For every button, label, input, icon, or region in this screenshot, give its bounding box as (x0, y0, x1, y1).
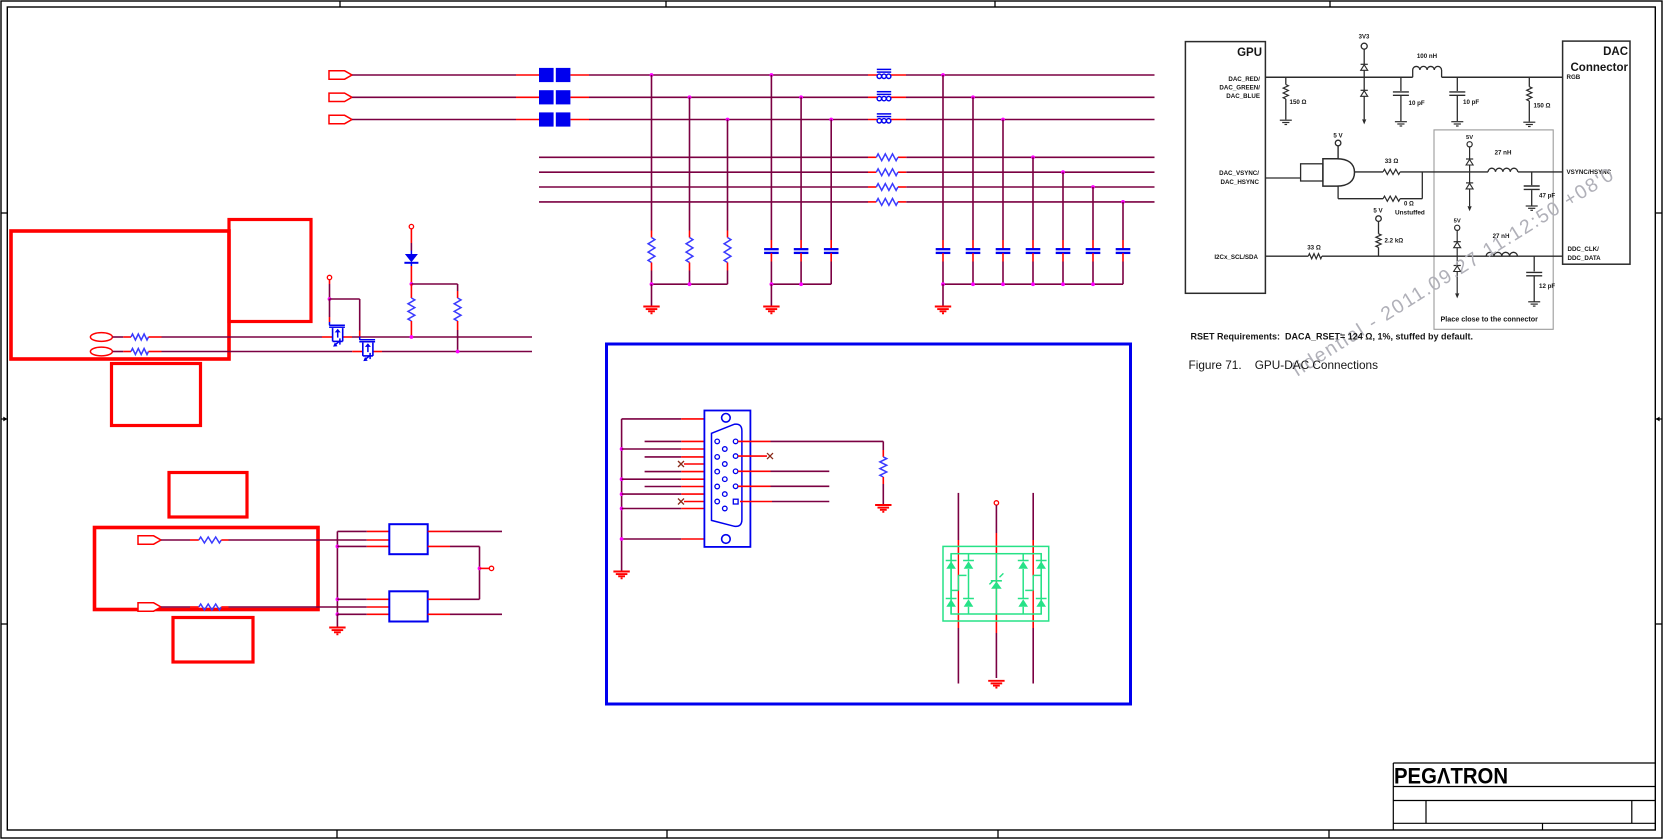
pin 4 circle (723, 462, 728, 467)
wire vertical drop to C26 (1092, 187, 1094, 249)
svg-text:Connector: Connector (1571, 62, 1629, 74)
frame center marker arrow left (1, 417, 7, 422)
wire row D to U2 (221, 606, 389, 608)
resistor R23 termination to ground (724, 238, 731, 263)
capacitor C21 (936, 249, 951, 253)
junction R33/wireA (410, 335, 414, 339)
title block cell vertical 2 (1631, 801, 1633, 824)
junction diode node (410, 282, 414, 286)
wire U1 pin out bottom to link (428, 546, 480, 599)
figure: GPU box (1185, 42, 1265, 294)
pin 1 circle (715, 439, 720, 444)
title block top line (1393, 762, 1655, 764)
figure: DAC Connector box (1563, 41, 1630, 264)
junction node right cap 6 (1091, 185, 1095, 189)
highlight box (red) area 3 (112, 364, 201, 426)
svg-text:33 Ω: 33 Ω (1385, 158, 1399, 165)
wire vertical drop to C27 (1122, 202, 1124, 249)
resistor R41 (series) (199, 537, 222, 543)
svg-text:DAC: DAC (1603, 46, 1628, 58)
highlight box (red) area 2 (229, 220, 311, 322)
junction node right cap 4 (1031, 155, 1035, 159)
svg-text:DAC_RED/: DAC_RED/ (1228, 76, 1260, 83)
svg-text:Figure 71. GPU-DAC Connecti: Figure 71. GPU-DAC Connections (1189, 358, 1379, 372)
dual pack resistor RN2 (blue squares) (539, 90, 570, 104)
ESD diode D5b (bottom) (1036, 569, 1047, 614)
svg-text:5V: 5V (1466, 135, 1473, 141)
figure: inductor 27nH ddc (1486, 252, 1517, 256)
svg-text:I2Cx_SCL/SDA: I2Cx_SCL/SDA (1214, 254, 1258, 261)
terminal circle out (489, 566, 493, 570)
capacitor C24 (1026, 249, 1041, 253)
figure: diode string vsync (1466, 135, 1473, 211)
frame center marker arrow right (1656, 417, 1662, 422)
junction bus/mid pin 4 (620, 492, 624, 496)
frame zone tick left upper (1, 212, 7, 214)
figure: wire gate output (1355, 171, 1440, 173)
wire vertical drop to C11 (770, 75, 772, 249)
junction node red/C (770, 73, 774, 77)
wire bus to VGA mid pin 1 (622, 448, 723, 450)
title block cell vertical 1 (1425, 801, 1427, 824)
figure: resistor 2.2k (1376, 221, 1381, 256)
power terminal circle (FET gates) (327, 275, 331, 279)
svg-text:DDC_DATA: DDC_DATA (1568, 255, 1602, 262)
title block left vertical (1392, 763, 1394, 830)
ferrite bead FB3 (877, 114, 891, 123)
wire to VGA left pin 5 (645, 471, 715, 473)
capacitor C12 (794, 249, 809, 253)
wire vertical drop to R23 (727, 120, 729, 238)
wire cap group1 bus (771, 283, 831, 285)
wire bus to U1 pin1 (337, 530, 389, 532)
frame zone tick bottom 2 (666, 830, 668, 838)
wire gate node to Q2 (330, 299, 360, 337)
title block line under logo (1393, 786, 1655, 788)
svg-text:DAC_GREEN/: DAC_GREEN/ (1219, 85, 1260, 92)
svg-text:2.2 kΩ: 2.2 kΩ (1385, 238, 1404, 245)
wire C23 bottom (1002, 253, 1004, 284)
ESD steering jog right pair (1025, 575, 1041, 590)
junction bus/mid pin 1 (620, 447, 624, 451)
wire ESD line 3 (1032, 493, 1034, 684)
pin 10 circle (723, 506, 728, 511)
wire sync row 4 (539, 201, 1155, 203)
wire row B (149, 351, 533, 353)
pin 2 circle (723, 447, 728, 452)
figure: resistor 150ohm left (1283, 77, 1288, 119)
figure: ground left (1280, 120, 1292, 124)
pin 5 circle (715, 469, 720, 474)
svg-text:12 pF: 12 pF (1539, 283, 1555, 290)
resistor R32 (series) (131, 349, 149, 355)
highlight box (blue) VGA area (607, 344, 1131, 704)
title block bottom cell divider (1542, 823, 1544, 830)
series resistor R15 on sync row 4 (876, 199, 898, 206)
resistor R42 (series) (199, 604, 222, 610)
wire bus ground stem (336, 614, 338, 627)
junction cap2 bus 1 (941, 282, 945, 286)
wire C24 bottom (1032, 253, 1034, 284)
wire vertical drop to C23 (1002, 120, 1004, 249)
pin 14 circle (733, 484, 738, 489)
port P1 video red input arrow (329, 71, 352, 79)
wire ground stem (942, 284, 944, 306)
frame zone tick right lower (1656, 623, 1662, 625)
wire sync row 1 (539, 156, 1155, 158)
wire ESD line 1 (957, 493, 959, 684)
figure: wire vsync row right (1439, 171, 1563, 173)
ESD zener DZ center (989, 554, 1003, 614)
wire pin11 to R35 (738, 440, 883, 442)
pin 11 circle (733, 439, 738, 444)
port arrow P4 (138, 536, 161, 544)
svg-text:10 pF: 10 pF (1463, 99, 1479, 106)
resistor R35 to ground (880, 457, 887, 477)
ground G4 (329, 628, 345, 635)
wire ground stem (651, 284, 653, 306)
svg-text:5V: 5V (1454, 219, 1461, 225)
wire bus to U1 pin3 (337, 545, 389, 547)
wire bus to VGA mid pin 4 (622, 493, 723, 495)
junction bus/U2 pin1 (336, 597, 340, 601)
wire pin14 out (738, 485, 829, 487)
figure: inductor 100nH (1413, 66, 1442, 77)
wire pin15 out (740, 501, 829, 503)
svg-text:150 Ω: 150 Ω (1290, 99, 1307, 106)
figure: resistor 33ohm i2c (1308, 254, 1322, 259)
capacitor C22 (966, 249, 981, 253)
dual pack resistor RN1 (blue squares) (539, 68, 570, 82)
wire R23 bottom (727, 263, 729, 285)
wire row C left (161, 539, 199, 541)
svg-text:RSET Requirements: DACA_RSET=: RSET Requirements: DACA_RSET= 124 Ω, 1%,… (1191, 332, 1474, 342)
figure: wire I2C row (1265, 255, 1562, 257)
wire gate node down to Q1 (329, 299, 331, 322)
dual pack resistor RN3 (blue squares) (539, 112, 570, 126)
svg-text:33 Ω: 33 Ω (1307, 245, 1321, 252)
figure: inductor 27nH vsync (1488, 168, 1518, 172)
frame zone tick left lower (1, 623, 7, 625)
junction R34/wireB (456, 350, 460, 354)
junction cap2 bus 3 (1001, 282, 1005, 286)
wire to VGA left pin 3 (645, 456, 715, 458)
svg-text:PEGΛTRON: PEGΛTRON (1394, 764, 1508, 789)
wire C22 bottom (972, 253, 974, 284)
ESD steering jog left pair (951, 575, 966, 590)
svg-text:27 nH: 27 nH (1495, 150, 1512, 157)
ESD diode D4b (bottom) (1018, 569, 1029, 614)
junction gate node (328, 297, 332, 301)
wire video red row (352, 74, 1155, 76)
pin 9 circle (715, 499, 720, 504)
svg-text:5 V: 5 V (1373, 208, 1383, 215)
wire vertical drop to C13 (830, 120, 832, 249)
highlight box (red) area 5 (95, 528, 319, 610)
figure: cap 47pF (1524, 172, 1540, 210)
junction node green/R (688, 95, 692, 99)
wire bus to VGA mid pin 3 (622, 478, 723, 480)
wire bus to U2 pin1 (337, 598, 389, 600)
wire vertical drop to C24 (1032, 157, 1034, 249)
wire R34 bottom to wireB (457, 321, 459, 352)
wire C25 bottom (1062, 253, 1064, 284)
ground G3 (935, 307, 951, 314)
junction cap2 bus 4 (1031, 282, 1035, 286)
junction bus/mid pin 3 (620, 477, 624, 481)
wire U2 pin out top from link (428, 598, 480, 600)
ferrite bead FB2 (877, 92, 891, 101)
port P3 video blue input arrow (329, 115, 352, 123)
wire ground stem (770, 284, 772, 306)
ground G2 (763, 307, 779, 314)
wire VGA shield bus vertical (621, 419, 623, 572)
wire C27 bottom (1122, 253, 1124, 284)
junction node blue/C (829, 118, 833, 122)
highlight box (red) area 4 (169, 473, 247, 518)
junction node green/C (799, 95, 803, 99)
figure: diode string RGB (1361, 49, 1368, 124)
figure: capacitor 10pF first (1393, 77, 1409, 126)
capacitor C27 (1116, 249, 1131, 253)
junction node blue/R (726, 118, 730, 122)
wire C26 bottom (1092, 253, 1094, 284)
wire bus to U2 pin3 (337, 613, 389, 615)
series resistor R12 on sync row 1 (876, 154, 898, 161)
svg-text:RGB: RGB (1567, 74, 1581, 81)
pin 7 circle (715, 484, 720, 489)
no-connect X mark left (678, 499, 684, 505)
junction node red/R (650, 73, 654, 77)
figure: cap 12pF (1526, 256, 1542, 306)
wire vertical drop to C12 (800, 97, 802, 249)
junction bus/U1 pin3 (336, 545, 340, 549)
wire R35 drop (882, 441, 884, 457)
junction node right cap 5 (1061, 170, 1065, 174)
svg-text:10 pF: 10 pF (1409, 100, 1425, 107)
wire nc to pin 5 (684, 501, 715, 503)
component U1 (blue box) (389, 524, 427, 554)
ground G1 (643, 307, 659, 314)
pin 6 circle (723, 477, 728, 482)
wire vertical drop to R21 (651, 75, 653, 238)
svg-text:Place close to the connector: Place close to the connector (1441, 315, 1539, 324)
ESD diode D4a (top) (1018, 554, 1029, 569)
resistor R31 (series) (131, 334, 149, 340)
terminal circle ESD power (994, 501, 998, 505)
ground G6 (875, 505, 891, 512)
no-connect X mark mid (678, 461, 684, 467)
resistor R21 termination to ground (648, 238, 655, 263)
wire U2 pin out bottom (428, 613, 502, 615)
wire sync row 3 (539, 186, 1155, 188)
wire row B left (113, 351, 132, 353)
frame zone tick top 3 (994, 1, 996, 7)
wire resistor group bus (652, 283, 728, 285)
figure: 3V3 terminal (1361, 43, 1367, 49)
frame zone tick right upper (1656, 212, 1662, 214)
wire C21 bottom (942, 253, 944, 284)
junction cap2 bus 2 (971, 282, 975, 286)
wire video green row (352, 96, 1155, 98)
ESD array U3 (green) outer box (943, 546, 1049, 621)
wire to VGA left pin 7 (645, 486, 715, 488)
pin 8 circle (723, 492, 728, 497)
wire C11 bottom (770, 253, 772, 284)
component U2 (blue box) (389, 591, 427, 621)
wire vertical drop to C21 (942, 75, 944, 249)
junction cap bus 1 (770, 282, 774, 286)
junction resistor bus 1 (650, 282, 654, 286)
figure: wire VSYNC input (1265, 177, 1300, 179)
wire to VGA left pin 1 (645, 440, 715, 442)
wire R21 bottom (651, 263, 653, 285)
wire shield top to mounting hole (622, 418, 722, 420)
resistor R22 termination to ground (686, 238, 693, 263)
port arrow P5 (138, 603, 161, 611)
figure: wire RGB row (1265, 76, 1562, 78)
svg-text:DDC_CLK/: DDC_CLK/ (1568, 246, 1600, 253)
junction node right cap 2 (971, 95, 975, 99)
junction resistor bus 2 (688, 282, 692, 286)
pin 13 circle (733, 469, 738, 474)
wire nc to mid pin (684, 463, 722, 465)
frame zone tick bottom 3 (997, 830, 999, 838)
wire pin13 out (738, 470, 829, 472)
frame zone tick top 1 (339, 1, 341, 7)
capacitor C26 (1086, 249, 1101, 253)
resistor R34 (pull) (454, 298, 461, 321)
wire U1 pin out top (428, 530, 502, 532)
ESD diode D3a (top) (963, 554, 974, 569)
ESD diode D3b (bottom) (963, 569, 974, 614)
figure: gray box place-close (1434, 130, 1553, 329)
power terminal circle (diode D1) (409, 224, 413, 228)
wire diode node branch right (411, 284, 457, 298)
svg-text:100 nH: 100 nH (1417, 53, 1438, 60)
wire C12 bottom (800, 253, 802, 284)
figure: diode string ddc (1454, 219, 1461, 299)
capacitor C25 (1056, 249, 1071, 253)
wire D1 anode stub (410, 229, 412, 254)
wire gate stub (329, 280, 331, 299)
frame zone tick bottom 4 (1328, 830, 1330, 838)
wire shield ground stem (621, 571, 623, 573)
ESD array U3 inner box (951, 554, 1041, 614)
junction bus/mid pin 5 (620, 507, 624, 511)
port P2 video green input arrow (329, 93, 352, 101)
figure: feedback loop 0 ohm (1338, 172, 1422, 201)
transistor Q2 (359, 337, 375, 362)
wire bus to VGA mid pin 5 (622, 508, 723, 510)
wire vertical drop to C22 (972, 97, 974, 249)
resistor R33 (pull) (408, 298, 415, 321)
wire D1 cathode to node (410, 266, 412, 284)
wire vertical drop to C25 (1062, 172, 1064, 249)
ESD diode D5a (top) (1036, 554, 1047, 569)
figure: AND gate (1301, 146, 1355, 186)
figure: capacitor 10pF second (1449, 77, 1465, 126)
frame zone tick top 4 (1329, 1, 1331, 7)
capacitor C23 (996, 249, 1011, 253)
ESD diode D2a (top) (946, 554, 957, 569)
wire C13 bottom (830, 253, 832, 284)
wire common bus vertical (336, 531, 338, 614)
series resistor R14 on sync row 3 (876, 184, 898, 191)
svg-text:DAC_HSYNC: DAC_HSYNC (1220, 179, 1259, 186)
ferrite bead FB1 (877, 69, 891, 78)
wire shield bottom to mounting hole (622, 538, 722, 540)
svg-text:Unstuffed: Unstuffed (1395, 210, 1425, 217)
wire cap group2 bus (943, 283, 1123, 285)
junction bus/U2 pin3 (336, 612, 340, 616)
wire vertical drop to R22 (689, 97, 691, 237)
wire row C to U1 (221, 539, 389, 541)
port oval J1 (90, 333, 112, 342)
svg-text:DAC_VSYNC/: DAC_VSYNC/ (1219, 170, 1259, 177)
junction cap2 bus 5 (1061, 282, 1065, 286)
junction node right cap 7 (1121, 200, 1125, 204)
title block line 2 (1393, 800, 1655, 802)
frame zone tick top 2 (665, 1, 667, 7)
svg-text:5 V: 5 V (1333, 133, 1343, 140)
wire row D left (161, 606, 199, 608)
figure: resistor 33ohm vsync (1383, 169, 1400, 174)
junction shield bottom (620, 537, 624, 541)
svg-text:GPU: GPU (1237, 47, 1262, 59)
transistor Q1 (329, 322, 345, 347)
junction node right cap 3 (1001, 118, 1005, 122)
junction cap bus 2 (799, 282, 803, 286)
no-connect X mark right (767, 453, 773, 459)
ground G7 (988, 681, 1004, 688)
junction node right cap 1 (941, 73, 945, 77)
wire row A (149, 336, 533, 338)
junction cap2 bus 6 (1091, 282, 1095, 286)
title block line 3 (1393, 822, 1655, 824)
highlight box (red) area 6 (173, 618, 253, 663)
figure: resistor 150ohm right (1523, 77, 1535, 126)
wire video blue row (352, 119, 1155, 121)
wire row A left (113, 336, 132, 338)
pin 12 circle (733, 454, 738, 459)
series resistor R13 on sync row 2 (876, 169, 898, 176)
wire pin12 nc (738, 455, 767, 457)
junction link node (478, 567, 482, 571)
wire R33 bottom (410, 321, 412, 337)
ESD diode D2b (bottom) (946, 569, 957, 614)
wire R35 bottom (882, 477, 884, 505)
svg-text:3V3: 3V3 (1359, 35, 1370, 41)
diode D1 (blue) (404, 254, 418, 266)
wire diode node down (410, 284, 412, 298)
svg-text:0 Ω: 0 Ω (1404, 202, 1414, 208)
highlight box (red) area 1 (11, 231, 229, 359)
svg-text:DAC_BLUE: DAC_BLUE (1226, 93, 1260, 100)
port oval J2 (90, 347, 112, 356)
svg-text:150 Ω: 150 Ω (1534, 103, 1551, 110)
wire R22 bottom (689, 263, 691, 285)
connector J3 DB15 body (704, 411, 750, 547)
wire ESD line 2 (power/gnd) (995, 505, 997, 678)
capacitor C13 (824, 249, 839, 253)
ground G5 (613, 572, 629, 579)
frame zone tick bottom 1 (336, 830, 338, 838)
pin 15 square (733, 499, 738, 504)
capacitor C11 (764, 249, 779, 253)
wire sync row 2 (539, 171, 1155, 173)
pin 3 circle (715, 455, 720, 460)
